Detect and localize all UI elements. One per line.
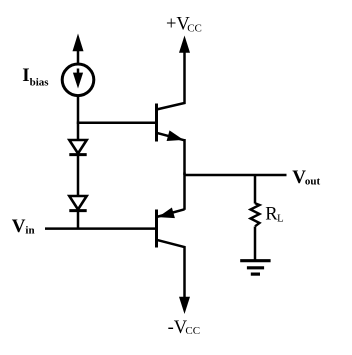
svg-text:bias: bias xyxy=(30,76,50,88)
svg-text:L: L xyxy=(277,213,284,225)
svg-text:in: in xyxy=(25,224,34,236)
svg-text:V: V xyxy=(12,216,26,237)
svg-text:CC: CC xyxy=(185,325,200,337)
svg-text:I: I xyxy=(22,65,29,86)
svg-text:out: out xyxy=(305,175,321,187)
svg-text:CC: CC xyxy=(187,22,202,34)
